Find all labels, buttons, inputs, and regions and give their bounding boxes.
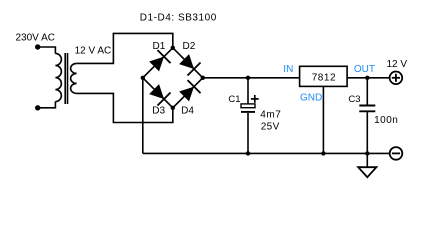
capacitor C1 (electrolytic) <box>241 104 255 112</box>
diode D4 <box>166 71 209 114</box>
diode D2 <box>166 41 209 84</box>
svg-text:12 V AC: 12 V AC <box>75 45 112 56</box>
terminal 230V AC bottom <box>35 105 40 110</box>
wire regulator OUT to +12V terminal <box>347 77 390 79</box>
wire C1 top lead <box>247 78 249 104</box>
wire 230V top terminal to primary <box>38 47 55 54</box>
svg-text:7812: 7812 <box>312 73 336 84</box>
svg-text:IN: IN <box>283 64 293 75</box>
diode D3 <box>136 71 179 114</box>
capacitor C3 <box>359 106 375 112</box>
svg-text:D4: D4 <box>181 105 194 116</box>
svg-text:12 V: 12 V <box>387 59 408 70</box>
transformer T1 secondary winding <box>71 63 77 93</box>
regulator U1 7812 box <box>300 66 348 86</box>
transformer core <box>64 53 66 104</box>
node C3 bottom / ground junction <box>365 151 369 155</box>
wire bridge left node down to ground rail <box>142 78 144 154</box>
diode D1 <box>136 41 179 84</box>
node C1 top <box>246 76 250 80</box>
label C1 plus <box>251 95 259 103</box>
node C3 top / OUT junction <box>365 76 369 80</box>
transformer T1 primary winding <box>55 53 61 101</box>
terminal 230V AC top <box>35 44 40 49</box>
svg-text:C3: C3 <box>348 94 360 105</box>
node GND pin bottom <box>321 151 325 155</box>
wire ground symbol lead <box>366 153 368 167</box>
node top bridge <box>171 46 175 50</box>
terminal 0V output <box>390 147 403 160</box>
ground <box>358 167 376 177</box>
svg-text:100n: 100n <box>374 115 398 126</box>
svg-text:D2: D2 <box>183 41 196 52</box>
wire secondary bottom to bridge bottom node <box>77 93 173 122</box>
svg-text:D1: D1 <box>153 41 166 52</box>
svg-text:GND: GND <box>300 92 322 103</box>
wire secondary top to bridge top node <box>77 33 173 63</box>
node right bridge <box>201 76 205 80</box>
wire C3 top lead <box>366 78 368 105</box>
svg-text:C1: C1 <box>228 94 240 105</box>
terminal +12V output <box>390 72 403 85</box>
wire regulator GND lead <box>322 86 324 153</box>
wire C1 bottom lead <box>247 113 249 153</box>
svg-text:OUT: OUT <box>354 64 375 75</box>
node left bridge <box>141 76 145 80</box>
svg-text:D1-D4: SB3100: D1-D4: SB3100 <box>140 12 217 23</box>
wire C3 bottom lead <box>366 112 368 153</box>
svg-text:230V AC: 230V AC <box>16 32 55 43</box>
svg-text:25V: 25V <box>261 122 280 133</box>
node bottom bridge <box>171 106 175 110</box>
wire 230V bottom terminal to primary <box>38 101 55 107</box>
ground rail <box>143 152 390 154</box>
node C1 bottom <box>246 151 250 155</box>
svg-text:D3: D3 <box>152 105 165 116</box>
wire bridge right node to regulator IN <box>203 77 300 79</box>
svg-text:4m7: 4m7 <box>260 110 281 121</box>
